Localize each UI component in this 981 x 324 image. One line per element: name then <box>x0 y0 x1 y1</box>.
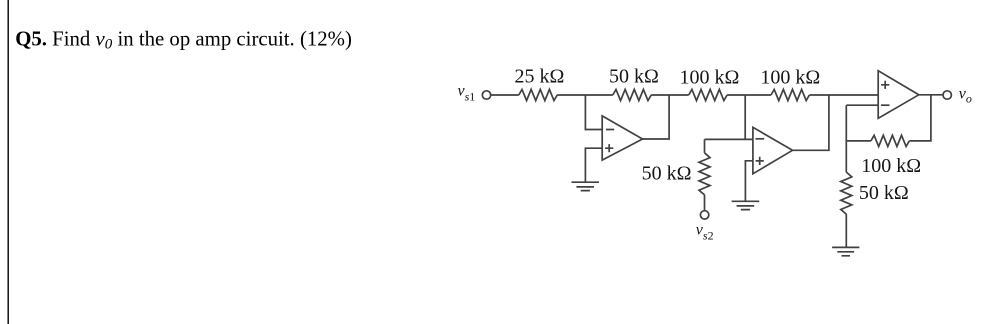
svg-text:50 kΩ: 50 kΩ <box>642 162 692 184</box>
svg-text:100 kΩ: 100 kΩ <box>679 66 739 88</box>
svg-text:100 kΩ: 100 kΩ <box>861 155 921 177</box>
svg-text:Q5. Find v0 in the op amp circ: Q5. Find v0 in the op amp circuit. (12%) <box>15 28 352 53</box>
svg-text:25 kΩ: 25 kΩ <box>514 66 564 88</box>
svg-text:100 kΩ: 100 kΩ <box>760 66 820 88</box>
svg-text:50 kΩ: 50 kΩ <box>609 66 659 88</box>
svg-text:50 kΩ: 50 kΩ <box>859 182 909 204</box>
